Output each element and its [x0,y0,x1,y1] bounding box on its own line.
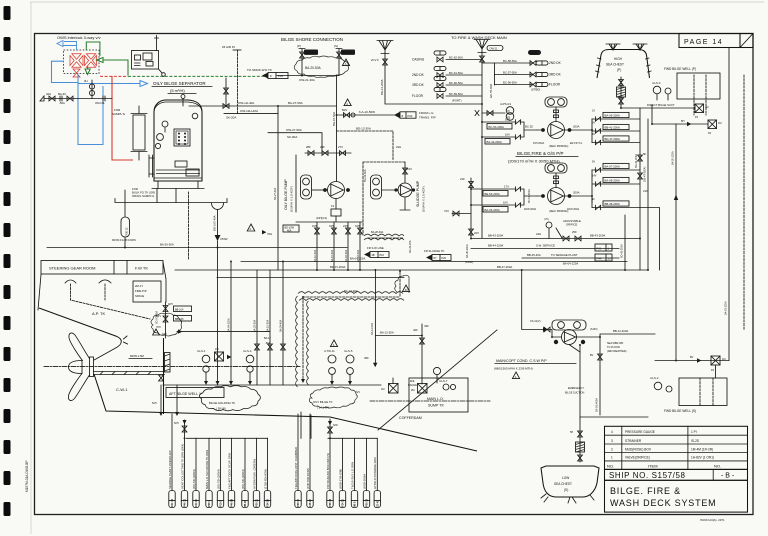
svg-text:NO.: NO. [714,464,721,469]
svg-text:BA-30: BA-30 [58,92,66,96]
svg-text:BRE-18: BRE-18 [343,52,352,55]
svg-text:1DW 200A: 1DW 200A [567,208,579,211]
sea grating symbols [606,44,647,50]
svg-text:43F: 43F [424,324,429,328]
svg-text:BA-26-50A: BA-26-50A [160,243,174,247]
blue supply arrow [57,41,77,51]
svg-text:52H: 52H [152,402,157,405]
high sea chest [596,50,652,79]
svg-text:DIRECT BILGE SUCT: DIRECT BILGE SUCT [647,103,675,107]
level switch 4-LS-3 [652,81,671,100]
wire SK-20A branch [224,113,278,115]
svg-text:BG-41-200A: BG-41-200A [635,154,638,168]
svg-text:4-LS-4: 4-LS-4 [243,349,252,353]
wire OW-27-50A [268,133,322,152]
svg-text:CS-41(V): CS-41(V) [530,320,541,323]
svg-text:TO SEWAGE PLANT: TO SEWAGE PLANT [551,253,578,257]
svg-text:2ND DK: 2ND DK [549,61,562,65]
svg-text:F24 20: F24 20 [195,499,198,507]
svg-text:(65)-SD-(180/4): (65)-SD-(180/4) [192,469,196,489]
svg-text:BV: BV [690,356,694,359]
svg-text:P30 21: P30 21 [256,498,259,507]
svg-text:1M: 1M [705,106,708,109]
svg-text:F&G AFT DECK SCUP. DRN: F&G AFT DECK SCUP. DRN [227,453,231,489]
shore conn cloud [294,56,348,77]
svg-text:2M-1Y: 2M-1Y [135,284,143,288]
svg-text:OM-OIL: OM-OIL [95,101,105,105]
svg-text:FWD BILGE WELL (P): FWD BILGE WELL (P) [664,67,696,71]
svg-text:27V: 27V [338,145,343,149]
svg-text:BA-24-40A: BA-24-40A [280,319,283,332]
svg-text:IS-2S: IS-2S [691,439,699,443]
svg-text:BA-20-125A: BA-20-125A [672,151,675,165]
svg-text:MDW.1.5M: MDW.1.5M [130,354,145,358]
svg-text:(SELF PRIMING): (SELF PRIMING) [549,145,568,148]
svg-text:BRE-32: BRE-32 [306,52,315,55]
svg-text:M/E: M/E [410,380,415,383]
svg-text:70H: 70H [267,232,272,236]
svg-text:(65)B-2KNA: (65)B-2KNA [362,474,366,489]
svg-text:BB-45-40A: BB-45-40A [527,253,541,257]
wire fwd dashed riser [743,75,745,330]
warning triangle [342,59,349,66]
svg-text:P30 18: P30 18 [366,498,369,507]
svg-text:34H: 34H [329,225,334,228]
wire riser BA-27 [274,106,278,270]
svg-text:2M: 2M [411,389,414,392]
well suction drops [152,375,179,416]
svg-text:(5 M³/H X 3.0 KGF): (5 M³/H X 3.0 KGF) [290,186,294,212]
svg-text:2CV F: 2CV F [371,58,379,62]
svg-text:(STBD): (STBD) [531,88,540,92]
from FO drain flag [112,190,136,248]
svg-text:BA-23-30A: BA-23-30A [254,319,257,332]
svg-text:(SELF PRIMING): (SELF PRIMING) [549,210,568,213]
svg-text:SK-20A: SK-20A [226,116,236,120]
svg-text:200A: 200A [573,191,580,195]
svg-text:BA-06-200A: BA-06-200A [605,114,620,118]
svg-text:HIGH: HIGH [614,57,623,61]
svg-text:55: 55 [608,257,612,261]
svg-text:24H: 24H [343,225,348,228]
svg-text:4: 4 [611,430,613,434]
svg-text:FROM L.G: FROM L.G [419,111,434,115]
svg-text:GC-55-80A: GC-55-80A [489,84,493,98]
svg-text:(P): (P) [617,68,621,72]
FR sludge tk arrow [424,249,451,261]
svg-text:(S): (S) [334,44,338,48]
svg-text:SUMP TK: SUMP TK [428,404,444,408]
wire cloud to manifold [177,329,270,333]
separator vessel U1 [152,95,204,189]
wire lower main [217,277,404,279]
svg-text:14V: 14V [592,175,597,178]
svg-text:BD-41-200A: BD-41-200A [621,244,624,258]
svg-text:MAIN L.O.: MAIN L.O. [427,397,444,401]
svg-text:BA-12-50A: BA-12-50A [380,331,394,335]
svg-text:BA-16-50A: BA-16-50A [345,249,348,262]
trunk valves [635,152,648,193]
insulated pipe BA-13-90A (scalloped) [296,271,410,387]
svg-text:BC-54-200A: BC-54-200A [489,125,505,129]
svg-text:EMERGENCY: EMERGENCY [568,387,584,390]
svg-text:BA-10-50A: BA-10-50A [314,249,317,262]
svg-text:BD-47-200A: BD-47-200A [605,137,621,141]
svg-text:BILGE SHORE CONNECTION: BILGE SHORE CONNECTION [281,37,343,42]
svg-text:(65)-SD-(180/4): (65)-SD-(180/4) [241,469,245,489]
svg-text:5V: 5V [592,161,595,164]
wire direct suct riser [651,105,653,112]
tank top line [163,384,381,386]
svg-text:P28 4: P28 4 [208,500,211,507]
svg-text:B2V: B2V [342,108,347,112]
svg-text:10V: 10V [503,201,508,205]
svg-text:BA-20-50A: BA-20-50A [305,66,321,70]
separator drip tray [115,199,227,203]
svg-text:BD-47-200A: BD-47-200A [330,265,346,269]
3-way valve V2 (red) [85,54,97,67]
svg-text:COFFERDAM: COFFERDAM [399,416,422,420]
wire from LO transfer [337,76,436,182]
svg-text:4-LS-5: 4-LS-5 [344,349,353,353]
fwd bilge well S [664,378,727,413]
svg-text:BA-15-30A: BA-15-30A [267,319,270,332]
pump U2 motor [545,97,567,107]
svg-text:AFT BILGE WELL 1: AFT BILGE WELL 1 [169,392,201,396]
svg-text:BD-51-300A: BD-51-300A [528,189,531,203]
wire shore header [277,75,339,77]
pump U4 (oily bilge) [312,182,350,210]
svg-text:BV: BV [590,354,594,357]
cofferdam mud box 1 [381,378,398,393]
svg-text:3V: 3V [592,122,595,125]
svg-text:BA-07-200A: BA-07-200A [605,165,620,169]
svg-text:4-LS-7: 4-LS-7 [439,379,448,383]
riser 2 crows foot [371,41,482,105]
low sea chest suction [569,345,585,463]
level switch 4-LS-7 [433,367,455,390]
svg-text:(PORT): (PORT) [452,99,462,103]
svg-text:BC-58-50A: BC-58-50A [503,59,517,63]
svg-text:BB-47-200A: BB-47-200A [497,265,512,269]
wire SB-47-300A [644,119,649,270]
svg-text:BA-03-125A: BA-03-125A [725,301,728,315]
svg-text:BG-30-25A: BG-30-25A [409,240,412,253]
control panel box [132,51,159,70]
wire BB-47-200A main [175,265,648,270]
svg-text:BA-08-200A: BA-08-200A [605,179,620,183]
svg-text:WASH DECK SYSTEM: WASH DECK SYSTEM [610,498,716,508]
svg-text:(24H)(1S): (24H)(1S) [316,217,327,220]
shaft centerline aft [370,400,490,402]
svg-text:BC-62-50A: BC-62-50A [449,55,463,59]
svg-text:28F: 28F [306,145,311,149]
svg-text:22V: 22V [474,231,479,235]
svg-text:P22: P22 [408,114,413,118]
bilge holding tank cloud [199,386,260,411]
level switch 4-LS-2 [650,376,672,392]
svg-text:OWS interlock 3-way v/v: OWS interlock 3-way v/v [57,35,101,40]
svg-text:OILY BILGE TK: OILY BILGE TK [313,400,333,404]
wire BA-12-50A [375,324,429,384]
svg-text:S/V: S/V [356,391,360,394]
svg-text:BA-11-50A: BA-11-50A [371,323,374,335]
svg-text:(ABV,WEATHER): (ABV,WEATHER) [607,350,627,353]
svg-text:PI: PI [508,110,511,113]
FR SW line arrow [364,246,389,258]
stern tube gland [165,353,171,373]
panel drain [159,69,163,73]
shaft centerline [44,366,300,368]
svg-text:P46 88: P46 88 [231,498,234,507]
svg-text:TRANS. P/P: TRANS. P/P [419,116,436,120]
svg-text:BILGE SUCTION: BILGE SUCTION [565,392,585,395]
wire csw suction riser [522,270,562,337]
svg-text:FWD BILGE WELL (S): FWD BILGE WELL (S) [664,409,696,413]
pressure switch 4-PS-01 [475,102,514,120]
deck isolation valves (port) [412,51,482,103]
discharge risers [591,119,593,203]
svg-text:P26: P26 [442,257,447,260]
svg-text:1M: 1M [381,388,384,391]
fwd bilge well P [664,67,720,115]
svg-text:92H: 92H [168,303,173,306]
svg-text:BILGE,FIRE & G/S P/P: BILGE,FIRE & G/S P/P [517,151,564,156]
stack trunk [639,108,641,270]
label MDW [129,354,152,359]
pump U3 motor [545,163,567,173]
svg-text:4-LS-2: 4-LS-2 [650,376,659,380]
valve on overboard drop [225,78,227,106]
svg-text:42F: 42F [413,328,418,332]
svg-text:(65)-SD-(180/4): (65)-SD-(180/4) [216,469,220,489]
svg-text:A.P. TK: A.P. TK [92,311,106,316]
svg-text:8B 20: 8B 20 [244,500,247,507]
svg-text:F24 55: F24 55 [267,499,270,507]
warning triangle B2V [342,99,351,112]
svg-text:OW-1H-40A: OW-1H-40A [238,101,254,105]
title block table [605,426,748,469]
svg-text:TO FLOOR: TO FLOOR [607,346,620,349]
shore conn S [334,44,355,76]
pump2 suction valves [471,185,537,213]
svg-text:200A: 200A [573,125,580,129]
svg-text:34H: 34H [355,225,360,228]
direct bilge suction [621,103,708,119]
svg-text:4-LS-1: 4-LS-1 [197,349,206,353]
svg-text:3: 3 [611,439,613,443]
svg-text:16V: 16V [407,167,412,171]
pump U5 motor [371,175,382,199]
svg-text:SEA CHEST: SEA CHEST [554,482,572,486]
aft bilge well label [166,388,224,398]
svg-text:( 24.1 M³): ( 24.1 M³) [317,406,329,410]
svg-text:BA-27-50A: BA-27-50A [274,187,277,200]
red sample line [112,76,133,160]
suction riser drops [216,248,286,386]
svg-text:5F: 5F [643,152,647,156]
to smoke wd tank arrow [247,68,288,79]
oily bilge tank cloud [309,387,357,410]
binder holes [4,6,11,516]
cofferdam mud box 2 [408,380,427,393]
svg-text:BF-4X: BF-4X [530,52,537,55]
blue pipe loop [52,61,148,144]
svg-text:OILY BILGE SEPARATOR: OILY BILGE SEPARATOR [153,81,206,86]
svg-text:CASING: CASING [412,58,425,62]
svg-text:P36 13: P36 13 [126,227,129,236]
svg-text:24H: 24H [536,232,541,236]
dashed drain to FW tk [188,192,190,260]
svg-text:S/W: S/W [333,424,338,427]
shaft tube [94,372,165,375]
svg-text:SLUDGE PUMP: SLUDGE PUMP [416,180,420,207]
svg-text:SHIP NO. S157/58: SHIP NO. S157/58 [609,471,686,480]
suction column group mid [294,414,381,508]
svg-text:HYDR.O CONNING DRN: HYDR.O CONNING DRN [373,457,377,489]
svg-text:BG-15-50A: BG-15-50A [332,112,336,126]
pump U6 (main copt csw) [530,320,600,345]
svg-text:BC-60-50A: BC-60-50A [449,81,463,85]
svg-text:42H: 42H [46,92,51,96]
svg-text:2ND DK: 2ND DK [412,73,425,77]
svg-text:BA-18-50A: BA-18-50A [357,249,360,262]
svg-text:BE-53-200A: BE-53-200A [485,192,500,196]
air vent dashed [222,45,241,114]
pump U3 (bilge fire GS no2) [524,173,592,213]
svg-text:BA-40-200A: BA-40-200A [487,140,502,144]
propeller [68,333,93,401]
svg-text:BD-12-30A: BD-12-30A [356,127,371,131]
svg-text:SEA CHEST: SEA CHEST [606,63,624,67]
svg-text:OW-21: OW-21 [490,48,498,51]
low sea chest [541,466,599,503]
svg-text:FR SLUDGE TK: FR SLUDGE TK [424,249,444,253]
svg-text:BA-15-50A: BA-15-50A [331,249,334,262]
sludge pump label (rot) [416,180,426,212]
svg-text:HYDRA PURI. (DRESN): HYDRA PURI. (DRESN) [252,459,256,489]
svg-text:5H: 5H [570,431,573,434]
manifold suction drops [312,222,362,270]
wire funnel drop [217,241,219,248]
svg-text:BG-13-200A: BG-13-200A [380,79,384,95]
svg-text:4-PS-01: 4-PS-01 [500,102,511,106]
3-way valve V1 (red) [70,54,83,77]
svg-text:P44: P44 [597,257,602,261]
svg-text:1M: 1M [215,348,218,351]
svg-text:16V: 16V [505,118,510,122]
warning + 70H [247,224,272,236]
svg-text:23H: 23H [396,145,401,149]
svg-text:25F: 25F [572,230,577,234]
drawing title [605,480,748,512]
panel antenna [155,36,159,51]
svg-text:( PI): ( PI) [544,218,549,221]
mud box aft [215,348,232,361]
svg-text:BA-28-30A: BA-28-30A [371,231,384,234]
svg-text:P46 13: P46 13 [184,498,187,507]
pump1 suction valves [482,118,537,145]
svg-text:(680/1360 M³/H X 23/9 MTH): (680/1360 M³/H X 23/9 MTH) [494,367,533,371]
svg-text:4V: 4V [592,133,595,136]
separator left flange [149,155,154,177]
svg-text:6.A-10-50W: 6.A-10-50W [359,110,375,114]
drain funnel [212,203,224,235]
discharge valve stack [592,110,660,271]
svg-text:FLOOR: FLOOR [412,94,424,98]
svg-text:SEA WBR WR: SEA WBR WR [607,342,623,345]
svg-text:SK-90A: SK-90A [287,135,297,139]
svg-text:BB-41-200A: BB-41-200A [605,126,620,130]
svg-text:1DW 200A: 1DW 200A [524,208,536,211]
wire BA-20-125A [672,124,679,361]
svg-text:-50A: -50A [59,101,65,105]
svg-text:BC-57-50A: BC-57-50A [503,70,517,74]
steering gear room box [41,261,163,275]
svg-text:F.W TK: F.W TK [135,266,148,271]
label BX-B1-400A (rot) [596,368,601,415]
svg-text:16V: 16V [505,133,510,137]
deck isolation valves (stbd) [495,50,562,92]
separator inlet column [131,106,147,160]
temp/level switches mid [324,340,354,385]
wire BA-26-50A [47,243,347,248]
svg-text:F24 10: F24 10 [342,499,345,507]
ship number row [605,469,748,480]
green control line [85,42,128,76]
svg-text:P19 5: P19 5 [220,500,223,507]
pump U4 motor [301,175,312,199]
svg-text:BA-40-200A: BA-40-200A [466,244,469,258]
svg-text:FIG: FIG [597,247,602,251]
svg-text:FR S.W LINE: FR S.W LINE [367,246,384,250]
oily bilge pump discharge valves [305,145,351,155]
svg-text:21F: 21F [460,177,465,181]
svg-text:BA-13-90A: BA-13-90A [344,289,358,293]
svg-text:(17)B-SD-(4SA): (17)B-SD-(4SA) [263,469,267,489]
svg-text:P16: P16 [380,254,385,257]
svg-text:3H: 3H [84,79,88,83]
svg-text:FLOOR: FLOOR [549,83,561,87]
svg-text:1H-82V (1 OR1): 1H-82V (1 OR1) [691,456,714,460]
starboard trunk [482,63,495,85]
svg-text:SPACE: SPACE [135,294,144,298]
discharge BB-12-400A [590,329,655,368]
pump U6 motor [552,320,586,330]
svg-text:C-W-1: C-W-1 [116,387,128,392]
svg-text:BA-04-125A: BA-04-125A [228,318,231,332]
svg-text:VALVE(ORIFICE): VALVE(ORIFICE) [625,456,650,460]
svg-text:23 43: 23 43 [377,500,380,507]
svg-text:1M: 1M [722,358,725,361]
svg-text:(S-BV): (S-BV) [590,328,598,331]
svg-text:BB-44-150A: BB-44-150A [488,244,503,248]
svg-text:LOW: LOW [562,476,569,480]
svg-text:BC-59-50A: BC-59-50A [449,92,463,96]
riser 1 crows foot [474,40,503,239]
svg-text:T&G B-SUS.L.O DRN: T&G B-SUS.L.O DRN [350,462,354,489]
svg-text:ITEM: ITEM [648,464,658,469]
svg-text:4-TW-11: 4-TW-11 [324,349,335,353]
svg-text:BG-165-40A: BG-165-40A [213,215,217,231]
svg-text:FROM F.& HFO.DRN: FROM F.& HFO.DRN [112,239,136,242]
svg-text:PRESSURE GAUGE: PRESSURE GAUGE [625,430,655,434]
svg-text:FIRE P/P: FIRE P/P [135,289,147,293]
bilge suction branch headers [186,437,377,439]
wire emergency bilge suction [580,416,648,418]
pump U5 (sludge) [382,162,415,210]
svg-text:13: 13 [331,204,335,208]
